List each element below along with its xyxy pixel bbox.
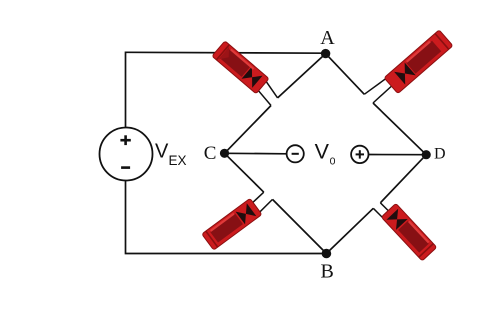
- wire arm jog to node A: [278, 54, 326, 98]
- wire plus terminal to D: [369, 154, 427, 156]
- svg-text:D: D: [434, 146, 446, 163]
- wire top horizontal (Vex+ to node A): [126, 52, 326, 127]
- svg-text:V: V: [155, 141, 169, 163]
- strain gauge R4 (bottom-right arm): [381, 203, 437, 261]
- gauge R4 leads: [380, 203, 392, 215]
- svg-text:A: A: [320, 27, 335, 49]
- minus terminal circle: [287, 145, 304, 162]
- voltage source VEX: [100, 128, 153, 181]
- wire arm jog to node D: [380, 155, 426, 203]
- svg-text:EX: EX: [169, 153, 187, 168]
- wire arm C to gauge R1 jog: [225, 106, 272, 154]
- minus sign inside source: [121, 166, 130, 169]
- node A: [321, 49, 330, 58]
- plus sign inside source: [120, 139, 130, 142]
- gauge R1 leads: [264, 78, 278, 98]
- wire arm jog to node D: [373, 103, 426, 155]
- wire C to minus terminal: [225, 152, 287, 155]
- svg-text:V: V: [315, 139, 330, 163]
- node C: [220, 149, 229, 158]
- svg-text:0: 0: [330, 156, 336, 168]
- node B: [322, 249, 332, 259]
- gauge R2 leads: [364, 78, 386, 94]
- strain gauge R3 (bottom-left arm): [202, 198, 262, 250]
- wire arm C to gauge R3 jog: [225, 153, 264, 192]
- gauge R3 leads: [251, 192, 264, 204]
- wire bottom horizontal (Vex- to node B): [126, 181, 327, 254]
- wire arm A to gauge R2 jog: [326, 54, 365, 95]
- wire arm jog to node B: [273, 199, 327, 253]
- wire arm B to gauge R4 jog: [326, 208, 373, 253]
- node D: [422, 150, 431, 159]
- strain gauge R1 (top-left arm): [212, 41, 269, 94]
- plus terminal circle: [351, 146, 368, 163]
- svg-text:B: B: [321, 260, 334, 282]
- svg-text:C: C: [204, 143, 217, 164]
- strain gauge R2 (top-right arm): [384, 30, 453, 94]
